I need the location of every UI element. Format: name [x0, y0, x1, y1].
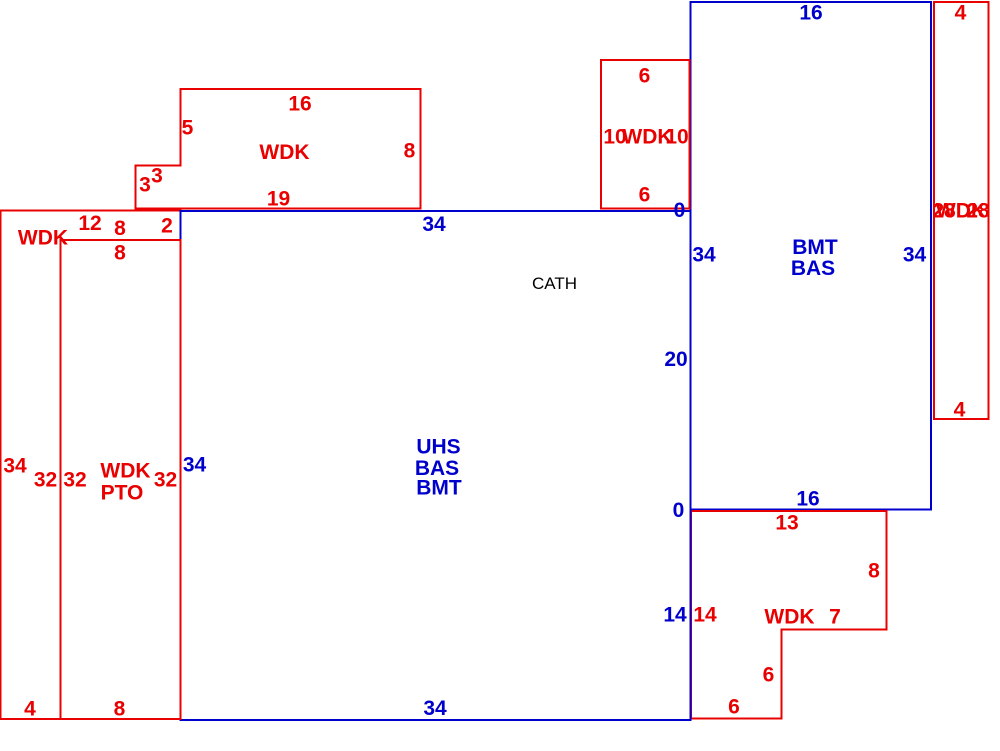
svg-text:0: 0: [673, 499, 685, 522]
wall WDK PTO patio polygon: [61, 240, 181, 719]
svg-text:32: 32: [63, 469, 86, 492]
svg-text:WDK: WDK: [18, 227, 68, 250]
svg-text:PTO: PTO: [101, 481, 144, 504]
svg-text:8: 8: [868, 560, 880, 583]
svg-text:34: 34: [423, 697, 447, 720]
svg-text:2: 2: [161, 214, 173, 237]
svg-text:BAS: BAS: [791, 257, 835, 280]
svg-text:16: 16: [799, 2, 822, 25]
svg-text:34: 34: [692, 244, 716, 267]
svg-text:10: 10: [665, 126, 688, 149]
svg-text:34: 34: [903, 244, 927, 267]
svg-text:16: 16: [288, 92, 311, 115]
svg-text:7: 7: [829, 606, 841, 629]
wall top-middle WDK deck polygon: [601, 60, 690, 209]
svg-text:6: 6: [728, 696, 740, 719]
svg-text:WDK: WDK: [100, 459, 150, 482]
svg-text:6: 6: [639, 64, 651, 87]
svg-text:4: 4: [24, 697, 36, 720]
svg-text:8: 8: [114, 242, 126, 265]
svg-text:32: 32: [154, 469, 177, 492]
svg-text:WDK: WDK: [259, 141, 309, 164]
svg-text:3: 3: [151, 165, 163, 188]
svg-text:8: 8: [114, 697, 126, 720]
wall right BMT BAS blue polygon: [691, 2, 932, 510]
svg-text:5: 5: [182, 117, 194, 140]
svg-text:34: 34: [3, 454, 27, 477]
svg-text:14: 14: [663, 604, 687, 627]
wall main UHS BAS BMT blue polygon: [181, 211, 691, 720]
svg-text:34: 34: [183, 454, 207, 477]
svg-text:28: 28: [966, 200, 990, 223]
svg-text:20: 20: [664, 348, 687, 371]
svg-text:34: 34: [422, 213, 446, 236]
svg-text:8: 8: [404, 140, 416, 163]
wall outer-left WDK porch polygon: [1, 211, 181, 720]
wall top-left WDK deck polygon: [136, 89, 421, 209]
svg-text:WDK: WDK: [764, 606, 814, 629]
svg-text:CATH: CATH: [532, 274, 577, 293]
svg-text:19: 19: [267, 188, 290, 211]
wall bottom-right WDK 7 deck polygon: [691, 511, 887, 719]
svg-text:8: 8: [114, 217, 126, 240]
svg-text:BMT: BMT: [792, 236, 838, 259]
svg-text:13: 13: [775, 512, 798, 535]
svg-text:4: 4: [954, 399, 966, 422]
svg-text:3: 3: [139, 174, 151, 197]
svg-text:6: 6: [639, 184, 651, 207]
svg-text:14: 14: [693, 604, 717, 627]
svg-text:6: 6: [763, 664, 775, 687]
svg-text:0: 0: [674, 199, 686, 222]
svg-text:4: 4: [955, 2, 967, 25]
svg-text:16: 16: [796, 488, 819, 511]
wall far-right WDK deck polygon: [934, 2, 989, 419]
svg-text:UHS: UHS: [416, 436, 460, 459]
svg-text:12: 12: [78, 212, 101, 235]
svg-text:BMT: BMT: [416, 477, 462, 500]
svg-text:32: 32: [34, 469, 57, 492]
